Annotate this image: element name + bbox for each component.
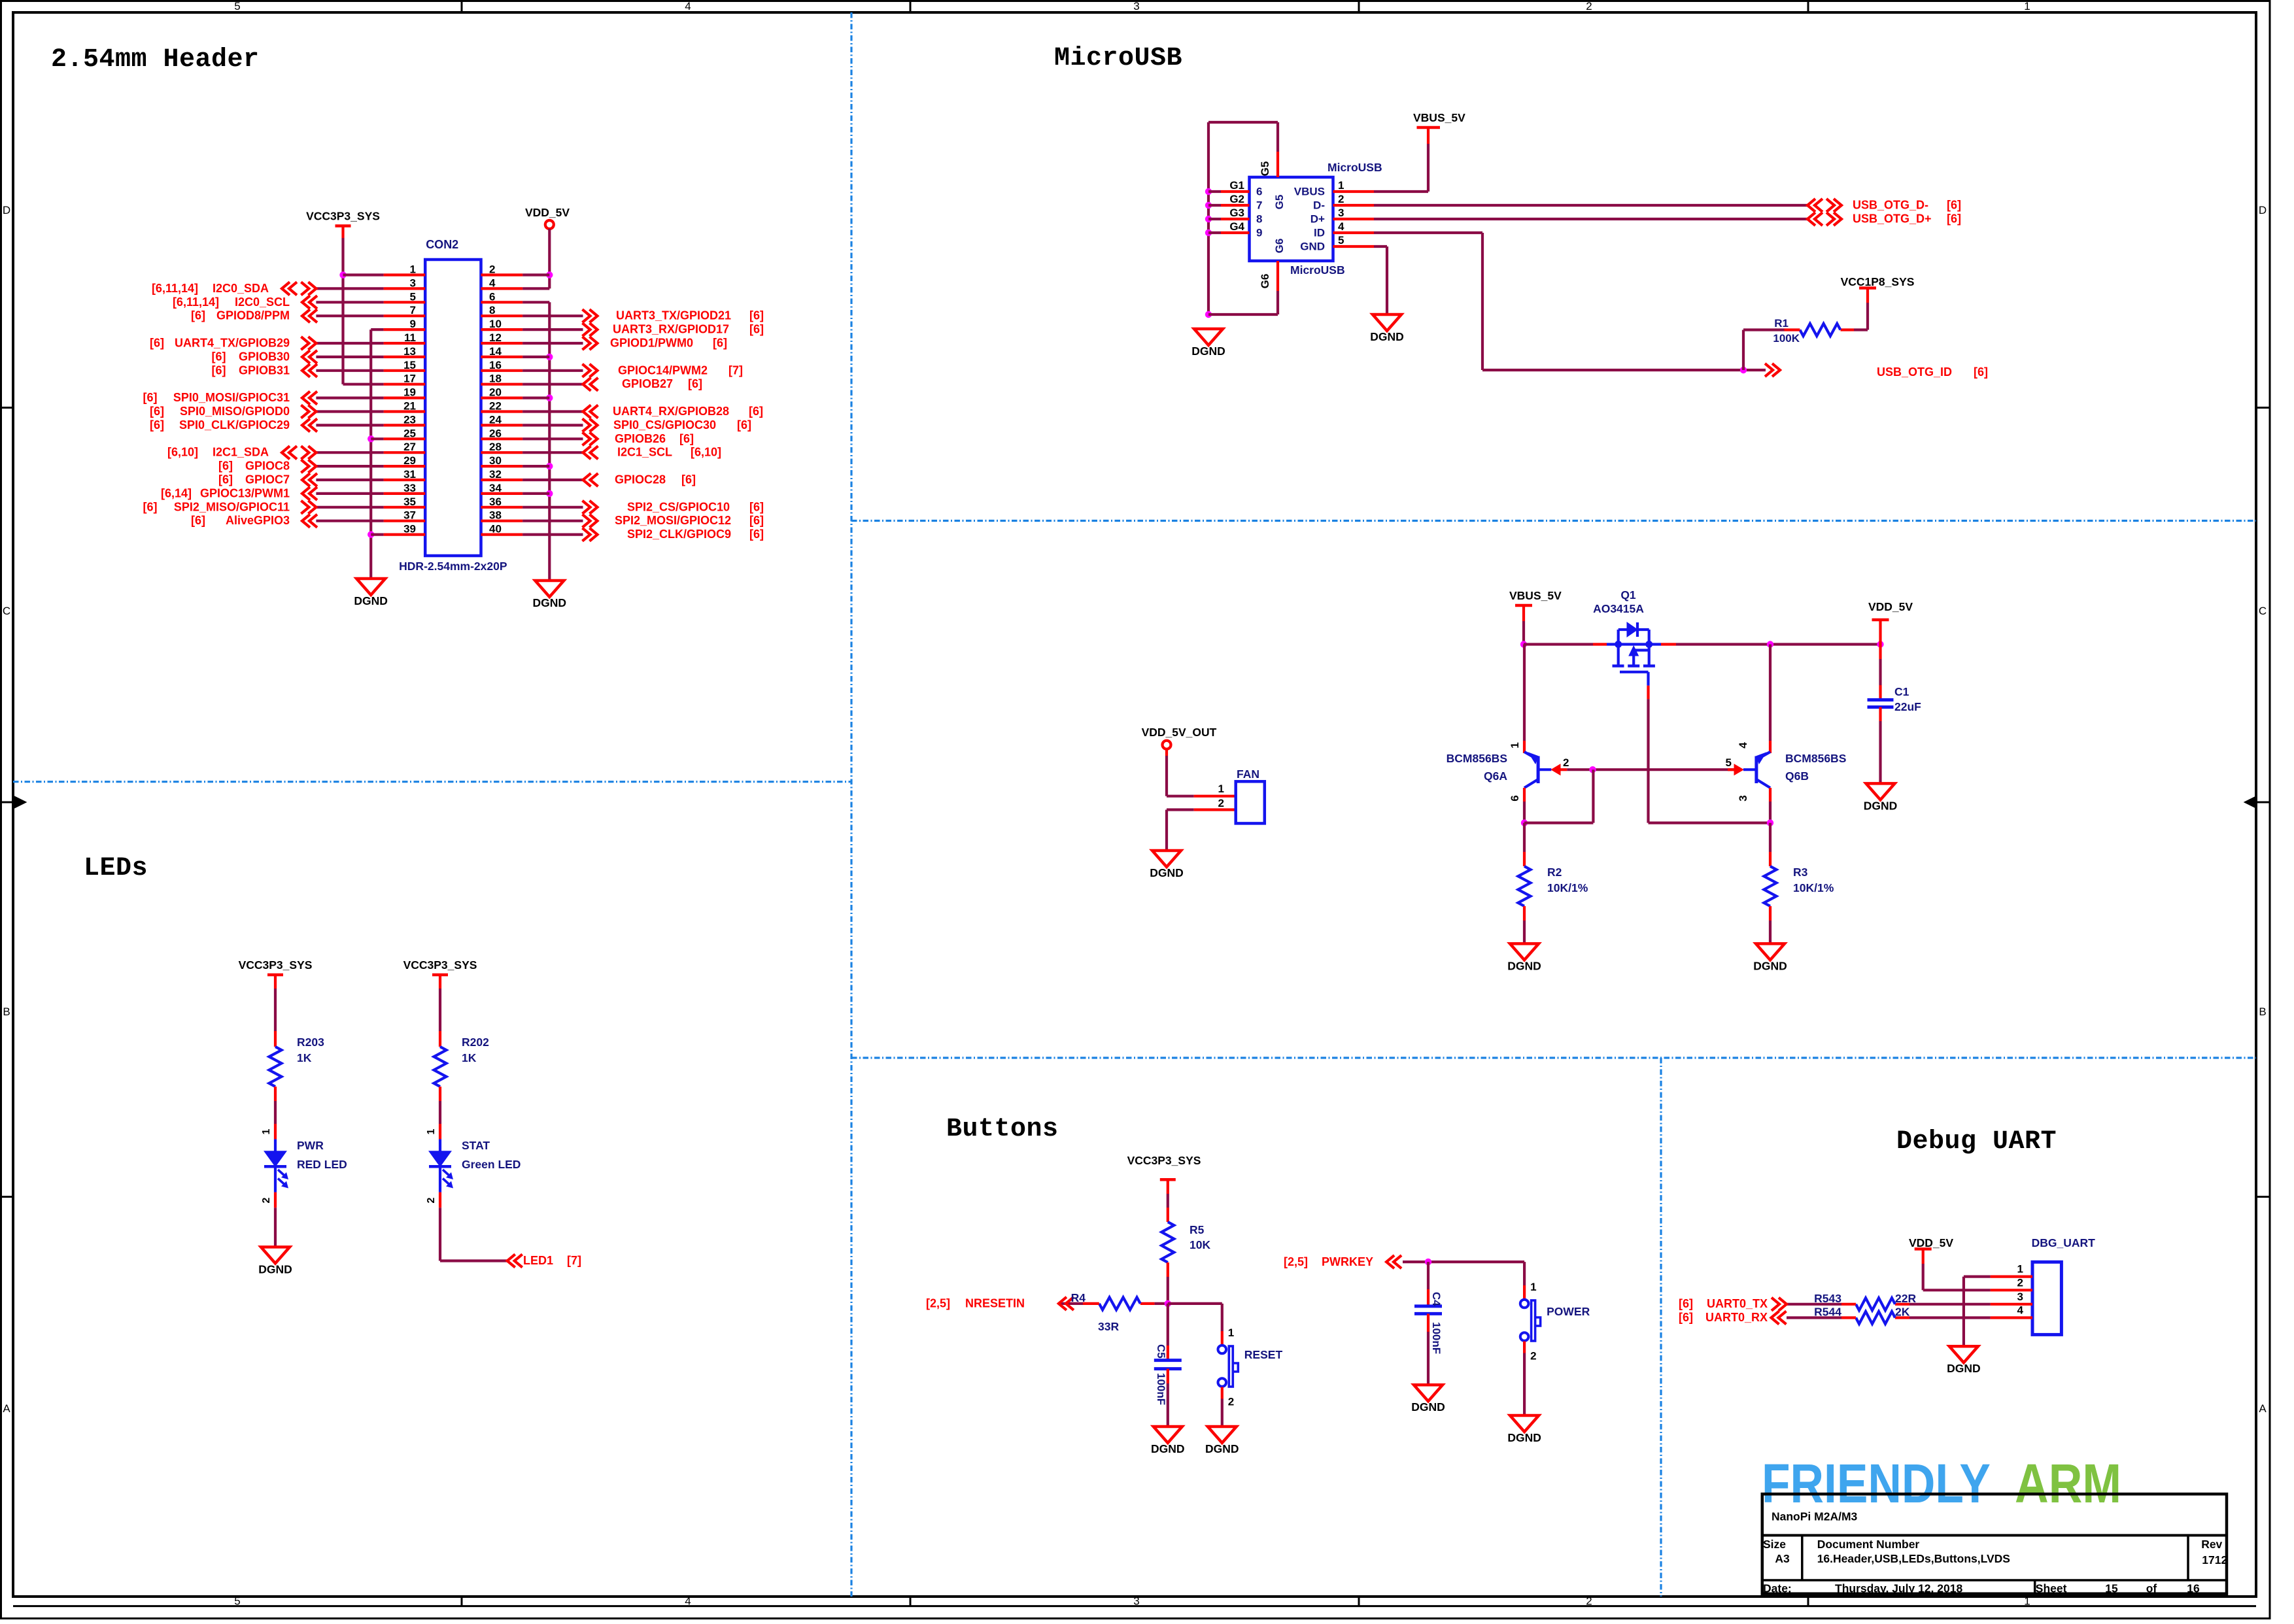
svg-text:CON2: CON2 [426,238,458,251]
svg-text:5: 5 [234,0,240,12]
svg-text:MicroUSB: MicroUSB [1327,161,1382,174]
svg-text:DGND: DGND [1191,345,1225,358]
svg-text:1: 1 [410,263,416,276]
svg-text:VBUS_5V: VBUS_5V [1413,111,1465,124]
svg-text:SPI2_MOSI/GPIOC12: SPI2_MOSI/GPIOC12 [615,514,731,527]
svg-text:[6]: [6] [749,323,764,336]
svg-text:UART0_TX: UART0_TX [1707,1297,1768,1310]
svg-text:USB_OTG_D+: USB_OTG_D+ [1853,212,1932,226]
svg-text:UART3_TX/GPIOD21: UART3_TX/GPIOD21 [616,309,731,322]
svg-text:Q1: Q1 [1620,588,1636,601]
svg-text:DGND: DGND [258,1262,292,1276]
svg-text:10: 10 [489,318,502,330]
svg-text:SPI0_MOSI/GPIOC31: SPI0_MOSI/GPIOC31 [173,391,290,404]
svg-text:6: 6 [489,290,495,303]
svg-text:GPIOB26: GPIOB26 [615,432,666,445]
svg-text:DGND: DGND [1947,1362,1981,1375]
svg-text:4: 4 [2017,1304,2024,1317]
svg-text:UART0_RX: UART0_RX [1705,1311,1768,1324]
svg-text:15: 15 [2105,1582,2118,1595]
svg-text:PWRKEY: PWRKEY [1322,1255,1373,1268]
svg-text:NanoPi M2A/M3: NanoPi M2A/M3 [1772,1510,1858,1523]
svg-text:of: of [2146,1582,2157,1595]
svg-text:LED1: LED1 [523,1254,553,1267]
svg-text:Document Number: Document Number [1817,1538,1920,1551]
svg-text:A: A [2259,1402,2267,1415]
svg-text:10K/1%: 10K/1% [1793,881,1834,894]
svg-text:32: 32 [489,468,502,481]
svg-text:[6]: [6] [749,500,764,513]
svg-text:A3: A3 [1775,1552,1790,1565]
svg-text:DGND: DGND [1151,1442,1185,1455]
svg-text:R2: R2 [1547,866,1562,879]
svg-text:1: 1 [1338,179,1344,192]
svg-text:26: 26 [489,427,502,439]
svg-text:1: 1 [2024,1595,2030,1608]
svg-text:SPI0_MISO/GPIOD0: SPI0_MISO/GPIOD0 [180,405,290,418]
svg-text:33: 33 [403,482,416,494]
svg-text:I2C0_SCL: I2C0_SCL [235,296,290,309]
svg-text:3: 3 [1338,207,1344,219]
svg-text:Green LED: Green LED [462,1158,521,1171]
svg-text:38: 38 [489,509,502,522]
svg-text:DGND: DGND [1507,1431,1541,1444]
svg-text:[2,5]: [2,5] [926,1296,950,1310]
svg-text:GPIOC13/PWM1: GPIOC13/PWM1 [200,486,290,499]
svg-text:ID: ID [1314,227,1325,239]
svg-text:1: 1 [1218,783,1224,795]
svg-text:G5: G5 [1273,195,1286,210]
svg-text:1: 1 [2024,0,2030,12]
svg-text:I2C0_SDA: I2C0_SDA [213,282,269,295]
svg-text:31: 31 [403,468,416,481]
svg-text:100nF: 100nF [1430,1322,1443,1354]
svg-text:C1: C1 [1894,685,1909,698]
svg-text:1: 1 [2017,1263,2023,1276]
svg-text:R202: R202 [462,1036,489,1049]
svg-text:UART4_TX/GPIOB29: UART4_TX/GPIOB29 [175,337,290,350]
svg-text:22R: 22R [1895,1292,1916,1305]
svg-text:GPIOC7: GPIOC7 [245,473,290,486]
svg-text:39: 39 [403,523,416,535]
svg-text:[6]: [6] [713,337,727,350]
svg-text:DGND: DGND [1150,866,1184,879]
svg-text:D+: D+ [1310,213,1325,226]
svg-text:VDD_5V_OUT: VDD_5V_OUT [1142,726,1217,739]
svg-text:2: 2 [1338,193,1344,205]
svg-text:G1: G1 [1229,179,1244,192]
svg-text:R543: R543 [1814,1292,1841,1305]
svg-text:DBG_UART: DBG_UART [2032,1236,2096,1249]
svg-text:GPIOB30: GPIOB30 [239,350,290,363]
svg-text:4: 4 [489,277,496,289]
svg-text:STAT: STAT [462,1139,490,1152]
svg-text:VDD_5V: VDD_5V [1868,600,1913,613]
svg-text:8: 8 [489,304,495,316]
svg-text:VCC3P3_SYS: VCC3P3_SYS [306,210,380,223]
svg-text:AliveGPIO3: AliveGPIO3 [226,514,290,527]
svg-text:[6]: [6] [150,337,164,350]
svg-text:2K: 2K [1895,1306,1910,1319]
svg-text:23: 23 [403,413,416,426]
svg-text:Q6A: Q6A [1484,770,1507,783]
svg-text:DGND: DGND [354,594,388,607]
svg-text:[6]: [6] [1679,1297,1693,1310]
svg-text:SPI0_CS/GPIOC30: SPI0_CS/GPIOC30 [613,418,716,431]
svg-text:DGND: DGND [1753,959,1787,972]
svg-text:[6]: [6] [218,473,233,486]
svg-text:2: 2 [426,1197,437,1203]
svg-text:1: 1 [1228,1327,1234,1339]
svg-text:2: 2 [2017,1276,2023,1289]
svg-text:6: 6 [1509,795,1521,801]
svg-text:34: 34 [489,482,502,494]
svg-text:SPI0_CLK/GPIOC29: SPI0_CLK/GPIOC29 [179,418,290,431]
svg-text:16: 16 [2187,1582,2200,1595]
svg-text:[6]: [6] [143,391,158,404]
svg-text:DGND: DGND [533,596,567,609]
svg-text:VDD_5V: VDD_5V [1909,1236,1953,1249]
svg-text:G6: G6 [1259,274,1271,289]
svg-text:Thursday, July 12, 2018: Thursday, July 12, 2018 [1835,1582,1962,1595]
svg-text:35: 35 [403,496,416,508]
svg-text:USB_OTG_ID: USB_OTG_ID [1877,365,1952,379]
svg-text:B: B [2259,1006,2266,1018]
svg-text:MicroUSB: MicroUSB [1054,44,1182,73]
svg-text:GPIOB27: GPIOB27 [622,377,673,390]
svg-text:R1: R1 [1774,317,1789,330]
svg-text:5: 5 [1726,756,1732,769]
svg-text:100K: 100K [1773,332,1800,345]
svg-text:VCC1P8_SYS: VCC1P8_SYS [1841,275,1915,288]
svg-text:16.Header,USB,LEDs,Buttons,LVD: 16.Header,USB,LEDs,Buttons,LVDS [1817,1552,2010,1565]
svg-text:20: 20 [489,386,502,399]
svg-text:SPI2_MISO/GPIOC11: SPI2_MISO/GPIOC11 [174,500,290,513]
svg-text:[2,5]: [2,5] [1284,1255,1308,1268]
svg-text:Sheet: Sheet [2036,1582,2067,1595]
svg-text:[6]: [6] [218,460,233,473]
svg-text:33R: 33R [1098,1320,1119,1333]
svg-text:[7]: [7] [728,364,743,377]
svg-text:3: 3 [410,277,416,289]
svg-text:R5: R5 [1190,1223,1205,1236]
svg-text:FAN: FAN [1237,768,1259,781]
svg-text:1K: 1K [462,1051,477,1064]
svg-text:ARM: ARM [2015,1453,2121,1514]
svg-text:14: 14 [489,345,502,358]
svg-text:PWR: PWR [297,1139,324,1152]
svg-text:40: 40 [489,523,502,535]
svg-text:BCM856BS: BCM856BS [1785,752,1846,765]
svg-text:16: 16 [489,359,502,371]
svg-text:36: 36 [489,496,502,508]
svg-text:C5: C5 [1155,1344,1167,1359]
svg-text:B: B [3,1006,10,1018]
svg-text:10K: 10K [1190,1238,1210,1251]
svg-text:C: C [3,605,10,617]
svg-text:[6,14]: [6,14] [161,486,192,499]
svg-text:Size: Size [1763,1538,1786,1551]
svg-text:Rev: Rev [2201,1538,2222,1551]
svg-text:7: 7 [1256,199,1262,212]
svg-text:I2C1_SDA: I2C1_SDA [213,446,269,459]
svg-text:5: 5 [410,290,416,303]
svg-text:LEDs: LEDs [84,854,148,883]
svg-text:[6]: [6] [749,514,764,527]
svg-text:11: 11 [404,331,416,344]
svg-text:3: 3 [2017,1291,2023,1303]
svg-text:[6]: [6] [212,350,226,363]
svg-text:G6: G6 [1273,239,1286,254]
svg-text:VCC3P3_SYS: VCC3P3_SYS [403,958,477,972]
svg-text:1K: 1K [297,1051,312,1064]
svg-text:[6]: [6] [688,377,702,390]
svg-text:19: 19 [403,386,416,399]
svg-text:2: 2 [1586,1595,1592,1608]
svg-text:VBUS_5V: VBUS_5V [1509,589,1562,602]
svg-text:3: 3 [1737,795,1749,801]
svg-text:[6]: [6] [1679,1311,1693,1324]
svg-text:DGND: DGND [1507,959,1541,972]
svg-text:[6]: [6] [212,364,226,377]
svg-text:GND: GND [1300,241,1325,253]
svg-text:I2C1_SCL: I2C1_SCL [617,446,672,459]
svg-text:G5: G5 [1259,161,1271,177]
svg-text:RESET: RESET [1244,1348,1283,1361]
svg-text:[6]: [6] [191,514,205,527]
svg-text:VCC3P3_SYS: VCC3P3_SYS [1127,1154,1201,1167]
svg-text:DGND: DGND [1205,1442,1239,1455]
svg-text:FRIENDLY: FRIENDLY [1762,1453,1991,1514]
svg-text:17: 17 [403,373,416,385]
svg-text:MicroUSB: MicroUSB [1290,263,1345,277]
svg-text:[6]: [6] [681,473,696,486]
svg-text:28: 28 [489,441,502,453]
svg-text:27: 27 [403,441,416,453]
svg-text:37: 37 [403,509,416,522]
svg-text:1712: 1712 [2202,1553,2227,1566]
svg-text:29: 29 [403,454,416,467]
svg-text:[6]: [6] [737,418,751,431]
svg-text:2: 2 [1563,756,1569,769]
svg-text:2: 2 [489,263,495,276]
svg-text:UART3_RX/GPIOD17: UART3_RX/GPIOD17 [613,323,729,336]
svg-text:G3: G3 [1229,207,1244,219]
svg-text:DGND: DGND [1411,1400,1445,1413]
svg-text:R4: R4 [1071,1291,1086,1304]
svg-text:4: 4 [685,1595,691,1608]
svg-text:D-: D- [1313,199,1325,212]
svg-text:G4: G4 [1229,220,1244,233]
svg-text:1: 1 [1530,1281,1536,1293]
svg-text:1: 1 [1509,742,1521,748]
svg-text:3: 3 [1133,0,1139,12]
svg-text:D: D [2259,204,2267,216]
svg-text:6: 6 [1256,186,1262,198]
svg-text:22: 22 [489,400,502,413]
svg-text:7: 7 [410,304,416,316]
svg-text:21: 21 [403,400,416,413]
svg-text:[6]: [6] [1947,199,1961,212]
svg-text:D: D [3,204,10,216]
svg-text:13: 13 [403,345,416,358]
svg-text:4: 4 [1737,742,1749,749]
svg-text:24: 24 [489,413,502,426]
svg-text:HDR-2.54mm-2x20P: HDR-2.54mm-2x20P [399,560,507,573]
svg-text:100nF: 100nF [1155,1373,1167,1405]
svg-text:[6]: [6] [1974,365,1988,379]
svg-text:SPI2_CS/GPIOC10: SPI2_CS/GPIOC10 [627,500,730,513]
svg-text:[6]: [6] [749,405,763,418]
svg-text:[6,10]: [6,10] [167,446,198,459]
svg-text:[6,11,14]: [6,11,14] [152,282,198,295]
svg-text:2: 2 [1586,0,1592,12]
svg-text:DGND: DGND [1864,799,1898,812]
svg-text:G2: G2 [1229,193,1244,205]
svg-text:5: 5 [1338,234,1344,246]
svg-text:18: 18 [489,373,502,385]
svg-text:2: 2 [1218,797,1224,809]
svg-text:R3: R3 [1793,866,1808,879]
svg-text:C: C [2259,605,2267,617]
svg-text:2.54mm Header: 2.54mm Header [51,45,260,75]
svg-text:[6]: [6] [143,500,158,513]
svg-text:25: 25 [403,427,416,439]
svg-text:[6]: [6] [191,309,205,322]
svg-text:2: 2 [1228,1396,1234,1408]
svg-text:DGND: DGND [1370,330,1404,343]
svg-text:GPIOD1/PWM0: GPIOD1/PWM0 [610,337,693,350]
svg-text:A: A [3,1402,10,1415]
svg-text:VDD_5V: VDD_5V [525,206,570,219]
svg-text:12: 12 [489,331,502,344]
svg-text:R203: R203 [297,1036,324,1049]
svg-text:1: 1 [261,1128,272,1134]
svg-text:1: 1 [426,1128,437,1134]
svg-text:4: 4 [685,0,691,12]
svg-text:Date:: Date: [1763,1582,1792,1595]
svg-text:Buttons: Buttons [946,1115,1059,1144]
svg-text:8: 8 [1256,213,1262,226]
svg-text:R544: R544 [1814,1306,1841,1319]
svg-text:RED LED: RED LED [297,1158,347,1171]
svg-text:[6]: [6] [150,418,164,431]
svg-text:9: 9 [1256,227,1262,239]
svg-text:Q6B: Q6B [1785,770,1809,783]
svg-text:5: 5 [234,1595,240,1608]
svg-text:3: 3 [1133,1595,1139,1608]
svg-text:GPIOC14/PWM2: GPIOC14/PWM2 [618,364,708,377]
svg-text:10K/1%: 10K/1% [1547,881,1588,894]
svg-text:USB_OTG_D-: USB_OTG_D- [1853,199,1928,212]
svg-text:[6]: [6] [150,405,164,418]
svg-text:[6]: [6] [679,432,694,445]
svg-text:4: 4 [1338,220,1344,233]
svg-text:2: 2 [1530,1350,1536,1362]
svg-text:15: 15 [403,359,416,371]
svg-text:[6]: [6] [749,528,764,541]
svg-text:22uF: 22uF [1894,700,1921,713]
svg-text:GPIOB31: GPIOB31 [239,364,290,377]
svg-text:[6,11,14]: [6,11,14] [173,296,219,309]
svg-text:[6]: [6] [1947,212,1961,226]
svg-text:UART4_RX/GPIOB28: UART4_RX/GPIOB28 [613,405,729,418]
svg-text:[6,10]: [6,10] [691,446,721,459]
svg-text:9: 9 [410,318,416,330]
svg-text:SPI2_CLK/GPIOC9: SPI2_CLK/GPIOC9 [627,528,731,541]
svg-text:BCM856BS: BCM856BS [1447,752,1507,765]
svg-text:Debug UART: Debug UART [1896,1127,2057,1157]
svg-text:C4: C4 [1430,1292,1443,1306]
svg-text:[7]: [7] [567,1254,581,1267]
svg-text:POWER: POWER [1547,1305,1590,1318]
svg-text:2: 2 [261,1197,272,1203]
svg-text:AO3415A: AO3415A [1593,602,1644,615]
svg-text:VBUS: VBUS [1294,186,1325,198]
svg-text:GPIOC8: GPIOC8 [245,460,290,473]
svg-text:GPIOC28: GPIOC28 [615,473,666,486]
svg-text:30: 30 [489,454,502,467]
svg-text:GPIOD8/PPM: GPIOD8/PPM [216,309,290,322]
svg-text:NRESETIN: NRESETIN [965,1296,1025,1310]
svg-text:[6]: [6] [749,309,764,322]
svg-text:VCC3P3_SYS: VCC3P3_SYS [239,958,313,972]
